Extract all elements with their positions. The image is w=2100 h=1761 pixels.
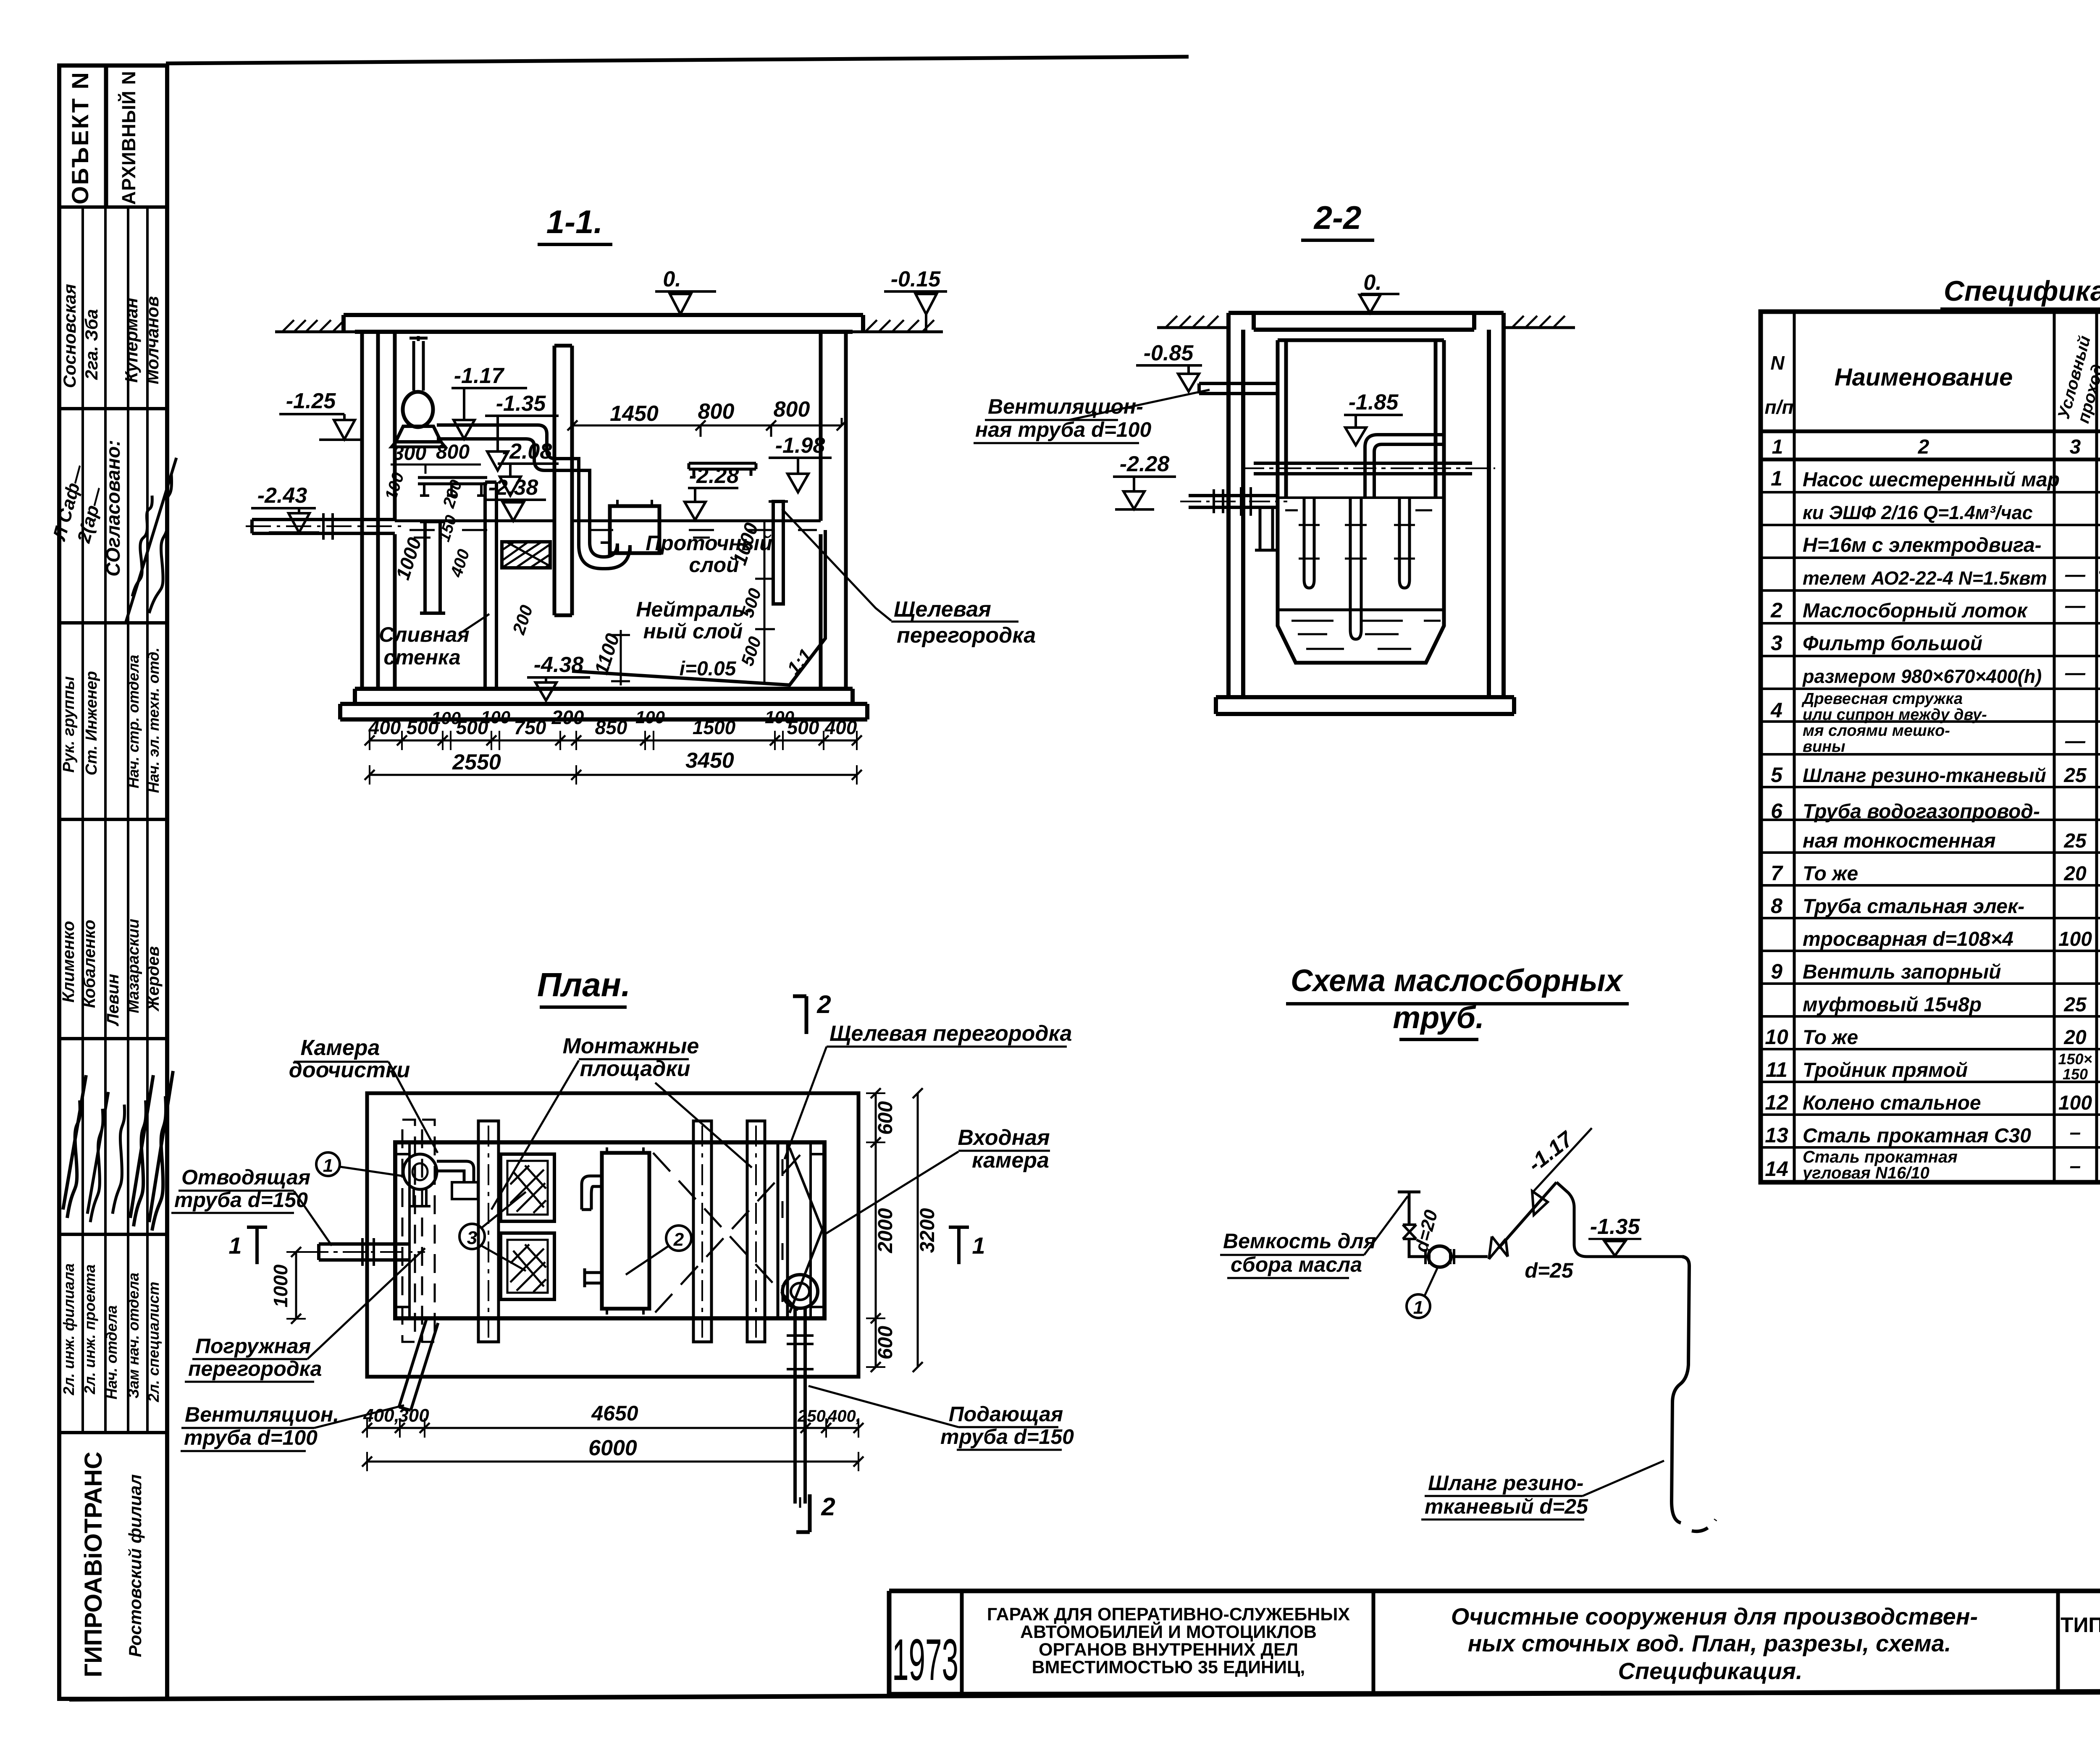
svg-text:1: 1 xyxy=(1771,467,1782,490)
svg-text:угловая N16/10: угловая N16/10 xyxy=(1802,1164,1929,1182)
filter frame 2 hatched xyxy=(501,1233,554,1299)
svg-text:0.: 0. xyxy=(1363,270,1381,295)
svg-text:7: 7 xyxy=(1771,861,1783,885)
svg-text:камера: камера xyxy=(972,1148,1049,1173)
svg-text:телем АО2-22-4 N=1.5квт: телем АО2-22-4 N=1.5квт xyxy=(1803,567,2047,589)
svg-text:3: 3 xyxy=(467,1228,477,1248)
svg-text:12: 12 xyxy=(1765,1091,1788,1114)
svg-text:2550: 2550 xyxy=(452,750,501,774)
svg-text:-1.35: -1.35 xyxy=(496,391,546,416)
inlet assembly 2-2 xyxy=(1180,487,1287,550)
svg-text:25: 25 xyxy=(2063,830,2087,852)
rail beam 2-2 xyxy=(1241,463,1495,474)
svg-text:600: 600 xyxy=(874,1326,897,1359)
svg-text:Сосновская: Сосновская xyxy=(60,284,79,388)
svg-text:–: – xyxy=(2070,1121,2081,1144)
drain wall (slivnaya stenka) xyxy=(485,482,496,689)
tank 2-2 top slab xyxy=(1254,313,1474,330)
level mark -2.08 xyxy=(498,439,559,496)
tank bottom slope xyxy=(572,530,825,685)
svg-text:100: 100 xyxy=(481,707,510,727)
label pogruzhnaya peregorodka xyxy=(185,1248,425,1382)
row 2 xyxy=(1770,595,2100,622)
svg-text:мя слоями мешко-: мя слоями мешко- xyxy=(1803,722,1950,740)
svg-text:N: N xyxy=(1770,352,1785,374)
svg-text:Труба водогазопровод-: Труба водогазопровод- xyxy=(1803,800,2040,823)
hose end dash xyxy=(1692,1520,1716,1531)
svg-text:Шланг резино-: Шланг резино- xyxy=(1428,1471,1583,1495)
svg-text:2000: 2000 xyxy=(874,1208,897,1253)
level mark -2.28 section 2-2 xyxy=(1113,452,1176,509)
svg-text:Монтажные: Монтажные xyxy=(563,1034,699,1058)
signature squiggle 6 xyxy=(130,1075,153,1226)
plan outer slab rect xyxy=(367,1093,858,1377)
svg-text:400: 400 xyxy=(824,716,857,738)
label podayuschaya truba xyxy=(808,1386,1074,1450)
pipe run with valve to riser xyxy=(1451,1182,1682,1259)
svg-text:труб.: труб. xyxy=(1393,1000,1484,1035)
TABLE xyxy=(1761,275,2100,1182)
level mark -0.85 xyxy=(1136,341,1202,391)
central partition wall xyxy=(554,346,572,615)
inlet chamber funnel lines xyxy=(790,1148,822,1313)
section mark 2 bottom xyxy=(796,1493,835,1532)
svg-text:Маслосборный лоток: Маслосборный лоток xyxy=(1803,600,2028,622)
svg-text:100: 100 xyxy=(2058,1092,2092,1114)
table outer border xyxy=(1761,312,2100,1182)
slotted partition wall plan xyxy=(778,1142,787,1318)
svg-text:-2.43: -2.43 xyxy=(257,483,307,508)
montage platform strip 3 xyxy=(747,1121,765,1342)
label kamera doochistki xyxy=(289,1036,438,1153)
svg-text:Колено стальное: Колено стальное xyxy=(1803,1092,1981,1114)
svg-text:вины: вины xyxy=(1803,738,1845,756)
project name lines xyxy=(987,1604,1350,1677)
filter frame 1 hatched xyxy=(501,1154,554,1221)
tipovoj proekt xyxy=(2061,1613,2100,1675)
svg-text:Отводящая: Отводящая xyxy=(181,1165,310,1189)
svg-text:Камера: Камера xyxy=(301,1036,380,1060)
svg-text:250,: 250, xyxy=(797,1407,830,1425)
sheet title lines xyxy=(1451,1603,1978,1684)
svg-text:тросварная d=108×4: тросварная d=108×4 xyxy=(1803,928,2013,950)
montage platform strip 1 xyxy=(478,1121,499,1342)
title block box xyxy=(889,1591,2100,1694)
svg-text:Шланг резино-тканевый: Шланг резино-тканевый xyxy=(1803,764,2046,786)
svg-text:2: 2 xyxy=(816,990,831,1018)
svg-text:ТИПОВОЙ ПРОЕКТ: ТИПОВОЙ ПРОЕКТ xyxy=(2061,1613,2100,1637)
hanging pipes 2-2 xyxy=(1299,498,1415,639)
oil trough right chamber xyxy=(689,463,756,476)
svg-text:Нач. эл. техн. отд.: Нач. эл. техн. отд. xyxy=(145,648,162,793)
svg-text:То же: То же xyxy=(1803,1026,1858,1049)
level mark -1.98 xyxy=(769,433,832,492)
svg-text:1973: 1973 xyxy=(892,1627,958,1693)
svg-text:ки ЭШФ 2/16 Q=1.4м³/час: ки ЭШФ 2/16 Q=1.4м³/час xyxy=(1803,502,2033,523)
sheet bottom border line xyxy=(69,1690,2100,1699)
svg-text:Щелевая: Щелевая xyxy=(894,597,991,622)
section mark 1 left xyxy=(228,1227,267,1264)
level mark -1.25 xyxy=(279,389,362,440)
row 4 xyxy=(1770,690,2100,756)
label Slivnaya stenka xyxy=(379,614,489,669)
svg-text:800: 800 xyxy=(774,397,810,422)
tank left wall xyxy=(362,332,395,689)
stamp header divider xyxy=(105,66,107,207)
row 9 xyxy=(1771,960,2100,1017)
svg-text:Вентиляцион.: Вентиляцион. xyxy=(185,1403,339,1426)
vent pipe 2-2 xyxy=(1069,383,1278,420)
svg-text:-2.28: -2.28 xyxy=(1120,452,1170,476)
svg-text:или сипрон между дву-: или сипрон между дву- xyxy=(1803,706,1987,724)
svg-text:Мазараский: Мазараский xyxy=(125,919,142,1013)
svg-text:-0.15: -0.15 xyxy=(891,267,941,291)
shelf bracket with 300 800 dims xyxy=(391,441,487,496)
TITLEBLOCK xyxy=(889,1561,2100,1694)
svg-text:500: 500 xyxy=(787,716,819,738)
svg-text:–: – xyxy=(2070,1155,2081,1177)
SECTION22 xyxy=(974,199,1575,714)
tank bottom slab xyxy=(340,689,867,719)
table row lines xyxy=(1761,492,2100,1147)
ground line left with hatch xyxy=(275,320,355,332)
svg-text:1-1.: 1-1. xyxy=(546,203,603,240)
PLAN xyxy=(171,966,1074,1532)
svg-text:2: 2 xyxy=(673,1229,684,1250)
svg-text:План.: План. xyxy=(537,966,630,1003)
bottom dim chain row2 xyxy=(365,748,862,785)
svg-text:Н=16м с электродвига-: Н=16м с электродвига- xyxy=(1803,534,2042,556)
slotted partition bar xyxy=(769,501,788,604)
section mark 2 top xyxy=(793,990,831,1034)
svg-text:—: — xyxy=(2065,564,2086,586)
table numbers row line xyxy=(1761,458,2100,462)
svg-text:ВМЕСТИМОСТЬЮ 35 ЕДИНИЦ,: ВМЕСТИМОСТЬЮ 35 ЕДИНИЦ, xyxy=(1032,1657,1305,1677)
row 8 xyxy=(1771,894,2100,952)
signature squiggle 1 xyxy=(132,496,152,596)
svg-text:Наименование: Наименование xyxy=(1835,364,2013,391)
ground hatch left of 2-2 xyxy=(1157,316,1228,328)
right dim 3200 xyxy=(913,1088,939,1372)
svg-text:2: 2 xyxy=(821,1493,835,1521)
oil pipe L shape 2-2 xyxy=(1365,435,1444,498)
submerged partition dashed strips xyxy=(402,1120,435,1342)
callout circle 2 xyxy=(626,1226,691,1275)
level mark 0. xyxy=(655,267,716,314)
stamp sub column lines xyxy=(83,207,147,1433)
svg-text:150×: 150× xyxy=(2058,1050,2092,1068)
svg-text:1: 1 xyxy=(228,1232,241,1259)
svg-text:800: 800 xyxy=(698,399,735,424)
signature squiggle 4 xyxy=(87,1092,108,1222)
svg-text:Нач. стр. отдела: Нач. стр. отдела xyxy=(125,655,142,788)
pump unit top left xyxy=(391,336,445,447)
signature squiggle 2 xyxy=(126,458,176,622)
svg-text:Подающая: Подающая xyxy=(949,1402,1063,1426)
svg-text:-2.38: -2.38 xyxy=(488,475,538,500)
svg-text:13: 13 xyxy=(1765,1123,1788,1147)
svg-text:Погружная: Погружная xyxy=(195,1334,311,1358)
label Nejtralnyj sloj xyxy=(636,598,751,643)
filter block hatched xyxy=(502,542,550,568)
svg-text:9: 9 xyxy=(1771,960,1782,983)
svg-text:Входная: Входная xyxy=(958,1126,1050,1150)
motor box right chamber xyxy=(601,500,659,553)
row 14 xyxy=(1765,1148,2100,1182)
svg-text:14: 14 xyxy=(1765,1157,1788,1181)
svg-text:-1.35: -1.35 xyxy=(1590,1215,1641,1239)
inlet pipe left xyxy=(246,513,405,540)
plan bottom dim row2 6000 xyxy=(362,1436,864,1471)
svg-text:11: 11 xyxy=(1766,1058,1788,1081)
callout circle 1 xyxy=(316,1152,402,1176)
level mark -1.17 schema xyxy=(1523,1126,1592,1215)
water lines 2-2 xyxy=(1278,498,1444,649)
svg-text:Схема маслосборных: Схема маслосборных xyxy=(1291,963,1624,998)
svg-text:800: 800 xyxy=(436,441,470,463)
svg-text:1: 1 xyxy=(1413,1297,1423,1318)
svg-text:200: 200 xyxy=(551,706,584,728)
stamp section lines xyxy=(59,207,167,1433)
table column lines xyxy=(1794,312,2100,1182)
svg-text:ных сточных вод. План, разрезы: ных сточных вод. План, разрезы, схема. xyxy=(1468,1630,1951,1656)
montage platform strip 2 xyxy=(693,1121,711,1342)
svg-text:Очистные сооружения для произв: Очистные сооружения для производствен- xyxy=(1451,1603,1978,1630)
svg-text:АВТОМОБИЛЕЙ И МОТОЦИКЛОВ: АВТОМОБИЛЕЙ И МОТОЦИКЛОВ xyxy=(1020,1622,1317,1642)
svg-text:муфтовый 15ч8р: муфтовый 15ч8р xyxy=(1803,994,1982,1016)
svg-text:площадки: площадки xyxy=(580,1057,690,1081)
row 11 xyxy=(1766,1050,2100,1083)
label Protochnyj sloj xyxy=(646,531,772,577)
level mark 0 section 2-2 xyxy=(1360,270,1399,313)
svg-text:5: 5 xyxy=(1771,763,1783,787)
svg-text:750: 750 xyxy=(514,716,546,738)
hose down run xyxy=(1672,1257,1689,1523)
svg-text:Фильтр большой: Фильтр большой xyxy=(1803,632,1982,655)
svg-text:3: 3 xyxy=(2070,436,2081,458)
svg-text:-4.38: -4.38 xyxy=(534,653,584,677)
ground line right with hatch xyxy=(853,320,943,332)
label ventilyacionnaya truba xyxy=(974,395,1151,443)
svg-text:6000: 6000 xyxy=(588,1436,637,1460)
svg-text:2: 2 xyxy=(1770,598,1782,622)
pump circle schema xyxy=(1425,1246,1454,1267)
svg-text:-2.08: -2.08 xyxy=(502,439,552,464)
feed pipe plan right xyxy=(782,1275,818,1508)
svg-text:-1.17: -1.17 xyxy=(454,364,505,388)
tank right wall xyxy=(821,332,846,689)
svg-text:АРХИВНЫЙ N: АРХИВНЫЙ N xyxy=(118,71,139,205)
svg-text:-1.85: -1.85 xyxy=(1349,390,1399,415)
svg-text:ная тонкостенная: ная тонкостенная xyxy=(1803,830,1996,852)
svg-text:2-2: 2-2 xyxy=(1313,199,1362,236)
svg-text:ОРГАНОВ ВНУТРЕННИХ ДЕЛ: ОРГАНОВ ВНУТРЕННИХ ДЕЛ xyxy=(1039,1640,1298,1660)
row 1 xyxy=(1771,467,2100,591)
svg-text:1: 1 xyxy=(1772,436,1783,458)
svg-text:100: 100 xyxy=(2058,928,2092,950)
level mark -2.38 xyxy=(485,475,546,521)
svg-text:1: 1 xyxy=(972,1232,985,1259)
SECTION11 xyxy=(246,203,1036,785)
STAMP xyxy=(49,66,176,1699)
signature squiggle 3 xyxy=(63,1075,86,1218)
svg-text:Нейтраль-: Нейтраль- xyxy=(636,598,751,621)
svg-text:труба d=150: труба d=150 xyxy=(940,1425,1074,1449)
svg-text:стенка: стенка xyxy=(383,646,460,669)
level mark -1.35 xyxy=(485,391,559,470)
svg-text:150: 150 xyxy=(2063,1066,2088,1083)
sheet top border line xyxy=(166,57,1189,63)
svg-text:Вентиляцион-: Вентиляцион- xyxy=(988,395,1143,418)
bottom dim chain row1 xyxy=(365,706,862,750)
svg-text:25: 25 xyxy=(2063,994,2087,1016)
svg-text:25: 25 xyxy=(2063,764,2087,787)
title block dividers xyxy=(962,1591,2100,1694)
svg-text:Левин: Левин xyxy=(104,974,122,1026)
row 5 xyxy=(1771,761,2100,789)
numbers row xyxy=(1772,436,2100,458)
svg-text:труба d=100: труба d=100 xyxy=(184,1426,318,1449)
svg-text:2л. инж. проекта: 2л. инж. проекта xyxy=(81,1265,98,1395)
svg-text:850: 850 xyxy=(595,716,627,738)
svg-text:Жердев: Жердев xyxy=(144,946,163,1012)
svg-text:i=0.05: i=0.05 xyxy=(680,658,737,680)
dashed diagonals inlet chamber xyxy=(653,1153,800,1312)
svg-text:2га. Зба: 2га. Зба xyxy=(81,309,101,380)
svg-text:10: 10 xyxy=(1765,1025,1788,1049)
svg-text:ОБЪЕКТ N: ОБЪЕКТ N xyxy=(67,71,93,205)
svg-text:Ростовский филиал: Ростовский филиал xyxy=(125,1474,145,1657)
label vhodnaya kamera xyxy=(824,1126,1050,1235)
svg-text:4: 4 xyxy=(1770,698,1782,722)
svg-text:ГИПРОАВіОТРАНС: ГИПРОАВіОТРАНС xyxy=(80,1451,107,1677)
outlet pipe plan left xyxy=(305,1238,425,1266)
svg-text:-2.28: -2.28 xyxy=(689,464,739,488)
vent pipe slanted plan xyxy=(399,1320,438,1410)
svg-text:Куперман: Куперман xyxy=(121,298,141,383)
svg-text:размером 980×670×400(h): размером 980×670×400(h) xyxy=(1802,666,2042,687)
svg-text:ная труба d=100: ная труба d=100 xyxy=(975,418,1151,441)
table header bottom line xyxy=(1761,430,2100,433)
dim row 1450 800 800 xyxy=(567,397,847,437)
svg-text:-1.25: -1.25 xyxy=(286,389,336,413)
submerged plate left chamber xyxy=(420,522,445,613)
label montazhnye ploschadki xyxy=(491,1034,752,1210)
tank top slab xyxy=(344,315,863,332)
callout circle 1 schema xyxy=(1407,1268,1437,1318)
svg-text:8: 8 xyxy=(1771,894,1782,918)
svg-text:400,: 400, xyxy=(827,1407,861,1425)
level mark -1.35 schema xyxy=(1588,1215,1641,1256)
svg-text:перегородка: перегородка xyxy=(188,1357,322,1380)
svg-text:ГАРАЖ ДЛЯ ОПЕРАТИВНО-СЛУЖЕБН: ГАРАЖ ДЛЯ ОПЕРАТИВНО-СЛУЖЕБНЫХ xyxy=(987,1604,1350,1625)
svg-text:СОгласовано:: СОгласовано: xyxy=(102,440,124,576)
svg-text:4650: 4650 xyxy=(591,1401,638,1425)
svg-text:1500: 1500 xyxy=(693,716,736,738)
svg-text:2л. специалист: 2л. специалист xyxy=(145,1282,162,1403)
level mark -2.43 xyxy=(251,483,319,533)
plan bottom dim row1 xyxy=(362,1401,864,1438)
label ventilyacionnaya truba plan xyxy=(181,1403,404,1451)
svg-text:1000: 1000 xyxy=(270,1264,291,1307)
pump plan top left xyxy=(403,1154,478,1206)
svg-text:2: 2 xyxy=(1918,436,1929,458)
callout circle 3 xyxy=(459,1192,526,1271)
svg-text:Клименко: Клименко xyxy=(59,921,78,1003)
svg-text:То же: То же xyxy=(1803,863,1858,885)
label schelevaya peregorodka plan xyxy=(785,1021,1072,1159)
svg-text:—: — xyxy=(2065,662,2086,684)
svg-text:Вентиль запорный: Вентиль запорный xyxy=(1803,961,2001,983)
signature squiggle 7 xyxy=(149,1071,173,1231)
level mark -1.85 xyxy=(1344,390,1403,445)
svg-text:100: 100 xyxy=(635,707,665,727)
row 13 xyxy=(1765,1121,2100,1148)
svg-text:—: — xyxy=(2065,595,2086,617)
plan tank walls xyxy=(395,1142,824,1318)
right dim chain 600 2000 600 xyxy=(866,1088,897,1372)
svg-text:тканевый d=25: тканевый d=25 xyxy=(1425,1495,1588,1518)
stamp column outer box xyxy=(59,66,167,1699)
plan left dim 1000 xyxy=(270,1247,306,1324)
svg-text:Вемкость для: Вемкость для xyxy=(1223,1229,1376,1253)
svg-text:1450: 1450 xyxy=(610,402,659,426)
tank 2-2 outer walls xyxy=(1228,313,1504,697)
row 7 xyxy=(1771,861,2100,885)
svg-text:перегородка: перегородка xyxy=(897,623,1036,648)
level mark -4.38 xyxy=(527,653,590,701)
svg-text:Труба стальная элек-: Труба стальная элек- xyxy=(1803,895,2024,918)
svg-text:2л. инж. филиала: 2л. инж. филиала xyxy=(60,1263,77,1396)
svg-text:Молчанов: Молчанов xyxy=(142,296,162,384)
svg-text:400: 400 xyxy=(368,716,401,738)
svg-text:Спецификация.: Спецификация. xyxy=(1618,1658,1802,1684)
svg-text:600: 600 xyxy=(874,1101,897,1135)
svg-text:3: 3 xyxy=(1771,631,1782,655)
svg-text:Нач. отдела: Нач. отдела xyxy=(103,1305,120,1399)
svg-text:Зам нач. отдела: Зам нач. отдела xyxy=(125,1273,142,1399)
svg-text:Тройник прямой: Тройник прямой xyxy=(1803,1059,1968,1081)
svg-text:Ст. Инженер: Ст. Инженер xyxy=(83,671,100,776)
level mark -1.17 xyxy=(451,364,527,439)
tank 2-2 inner vessel xyxy=(1278,340,1444,663)
svg-text:3200: 3200 xyxy=(916,1208,939,1253)
drain valve with riser xyxy=(1398,1192,1442,1257)
level mark -2.28 xyxy=(685,464,739,520)
section mark 1 right xyxy=(949,1227,985,1264)
svg-text:Древесная стружка: Древесная стружка xyxy=(1801,690,1963,708)
row 10 xyxy=(1765,1024,2100,1049)
svg-text:Спецификация.: Спецификация. xyxy=(1944,275,2100,307)
svg-text:1: 1 xyxy=(323,1155,333,1176)
svg-text:п/п: п/п xyxy=(1765,396,1794,418)
svg-text:Щелевая перегородка: Щелевая перегородка xyxy=(829,1021,1072,1046)
svg-text:ный слой: ный слой xyxy=(643,619,743,643)
svg-text:Сталь прокатная С30: Сталь прокатная С30 xyxy=(1803,1125,2031,1147)
SCHEMA xyxy=(1220,963,1716,1531)
svg-text:0.: 0. xyxy=(663,267,681,291)
label emkost dlya sbora masla xyxy=(1220,1196,1408,1278)
svg-text:сбора масла: сбора масла xyxy=(1231,1253,1362,1276)
svg-text:Сливная: Сливная xyxy=(379,623,469,646)
svg-text:Рук. группы: Рук. группы xyxy=(60,676,78,772)
svg-text:—: — xyxy=(2065,730,2086,752)
level mark -0.15 xyxy=(884,267,947,332)
ground hatch right of 2-2 xyxy=(1504,316,1575,328)
discharge pipe from pump xyxy=(437,425,630,569)
row 6 xyxy=(1771,799,2100,852)
svg-text:6: 6 xyxy=(1771,799,1783,823)
